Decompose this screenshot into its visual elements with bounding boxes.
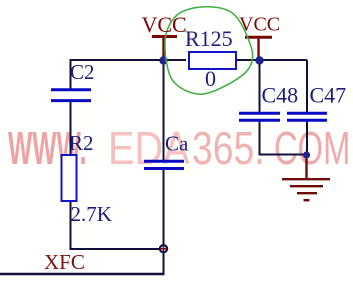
svg-text:C48: C48 <box>262 83 299 108</box>
svg-text:0: 0 <box>205 66 216 91</box>
svg-text:2.7K: 2.7K <box>71 202 112 226</box>
svg-text:R125: R125 <box>185 26 233 51</box>
svg-text:VCC: VCC <box>239 14 280 36</box>
svg-text:R2: R2 <box>69 131 94 155</box>
svg-text:Ca: Ca <box>165 131 189 155</box>
svg-text:C2: C2 <box>70 60 95 84</box>
svg-text:VCC: VCC <box>142 12 187 37</box>
svg-text:C47: C47 <box>310 83 347 108</box>
svg-text:XFC: XFC <box>44 250 85 274</box>
